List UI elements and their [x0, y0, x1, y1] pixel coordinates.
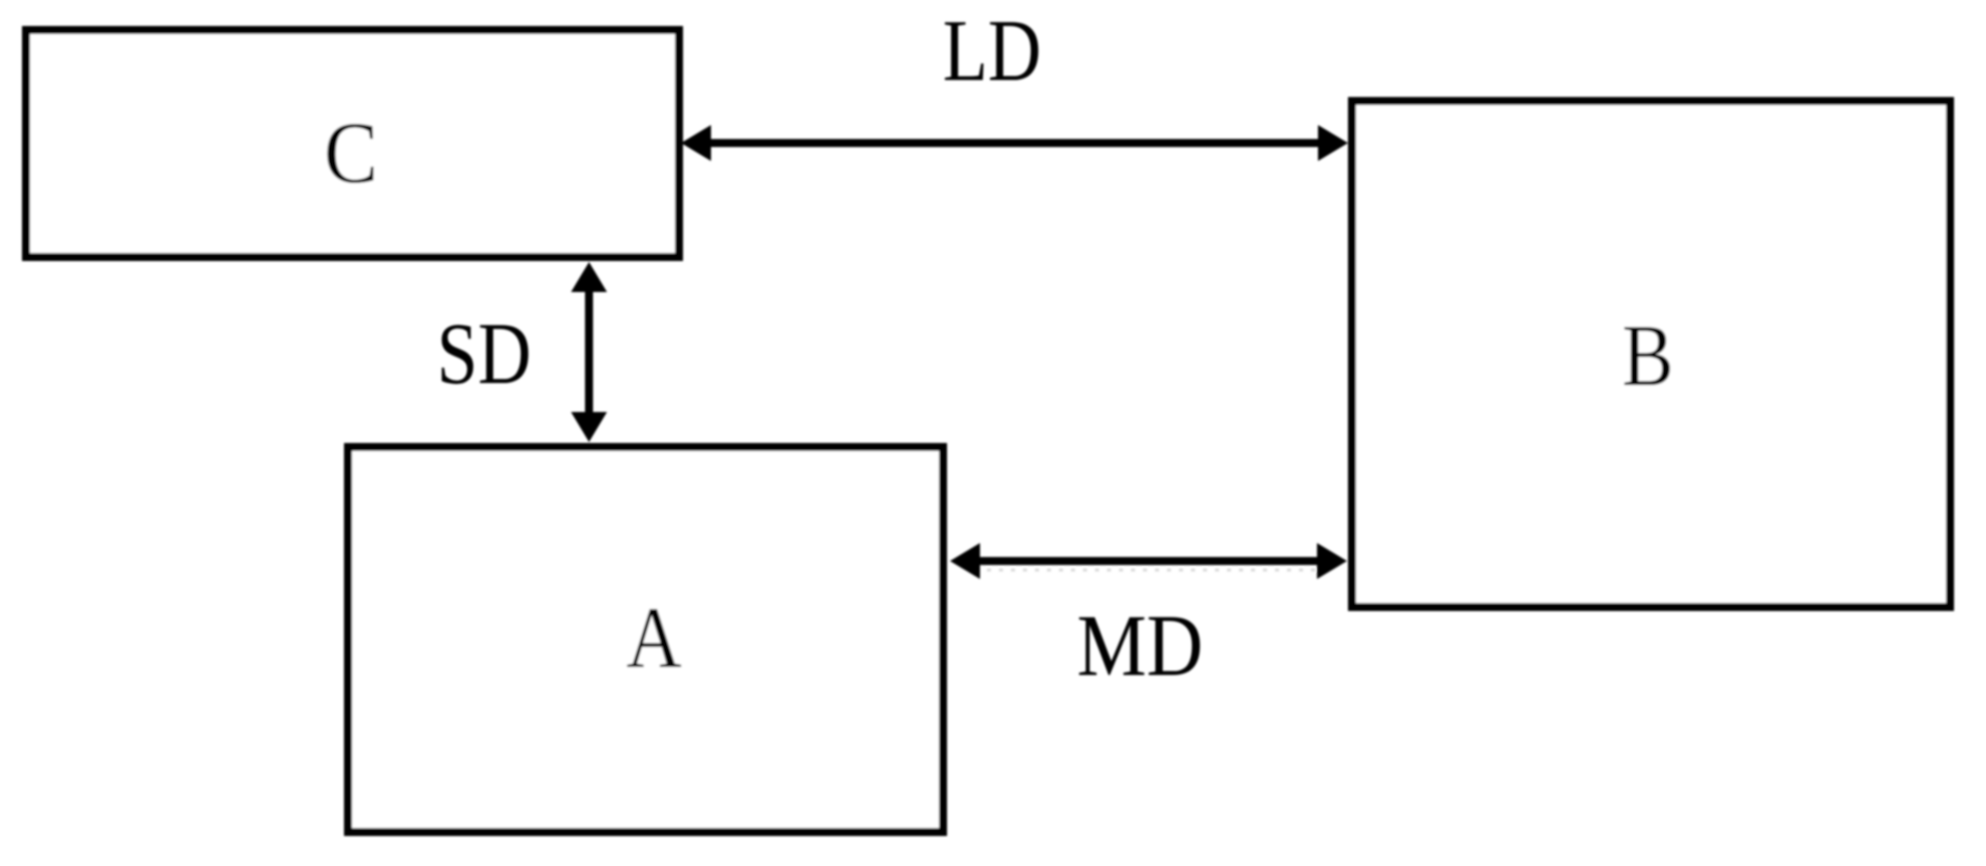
label MD [1077, 598, 1203, 695]
block C [26, 30, 679, 257]
faint scan artifact line under MD wire [975, 569, 1320, 572]
wire SD (C bottom edge to A top edge) [585, 287, 593, 417]
arrowhead LD left [681, 125, 711, 161]
wire LD (C right edge to B left edge) [706, 139, 1323, 147]
svg-text:B: B [1622, 306, 1674, 404]
svg-text:C: C [324, 105, 378, 202]
label SD [437, 305, 531, 402]
block B [1352, 101, 1950, 607]
svg-text:SD: SD [437, 305, 531, 402]
svg-text:MD: MD [1077, 598, 1203, 695]
arrowhead SD top [571, 262, 607, 292]
block A [348, 447, 943, 832]
svg-text:LD: LD [943, 2, 1042, 99]
label LD [943, 2, 1042, 99]
arrowhead SD bottom [571, 412, 607, 442]
label B [1622, 306, 1674, 404]
label A [626, 589, 681, 686]
arrowhead MD left [950, 543, 980, 579]
svg-text:A: A [626, 589, 681, 686]
label C [324, 105, 378, 202]
arrowhead LD right [1318, 125, 1348, 161]
arrowhead MD right [1317, 543, 1347, 579]
wire MD (A right edge to B left edge) [975, 557, 1322, 565]
